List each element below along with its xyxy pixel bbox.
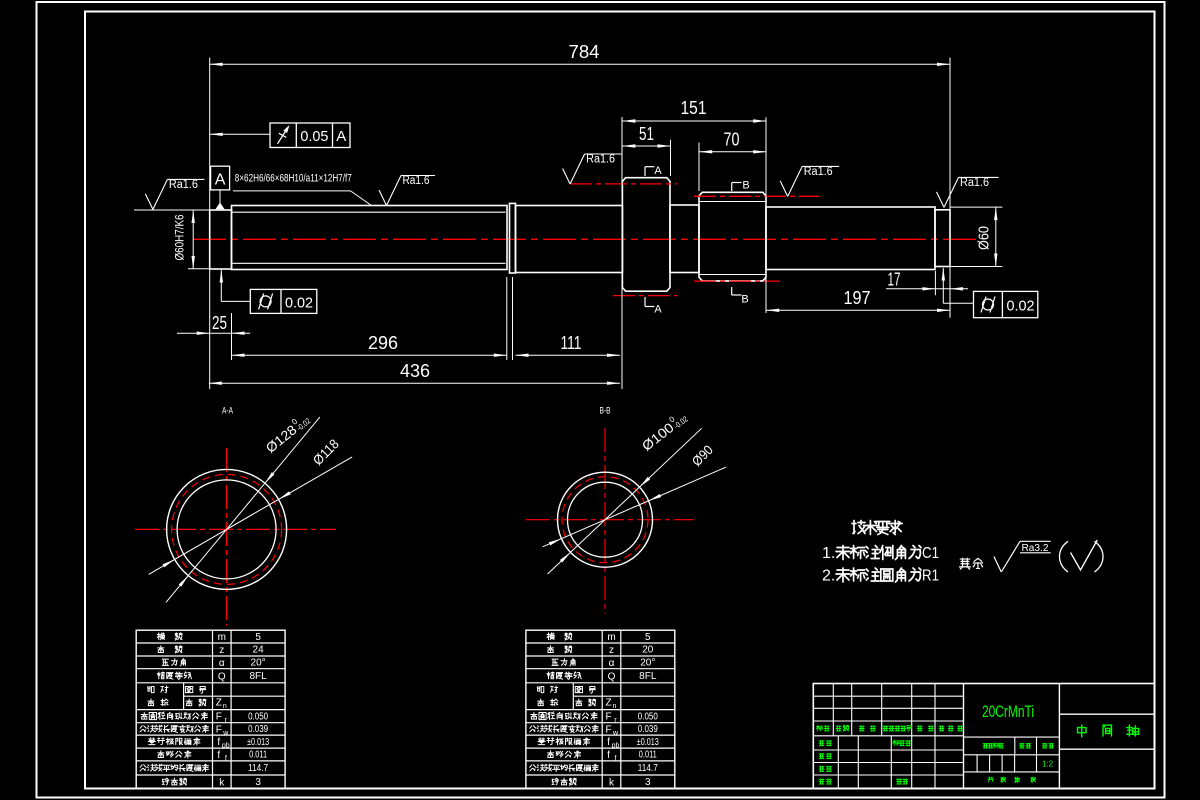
datum A flag box [211, 166, 230, 190]
dim 296 [232, 354, 507, 356]
svg-text:±0.013: ±0.013 [247, 737, 269, 748]
shaft right stub dia60 [935, 210, 950, 267]
dim 111 [516, 354, 621, 356]
section cut mark A top [645, 166, 654, 168]
shaft main centerline (red dash-dot) [193, 238, 976, 240]
svg-text:5: 5 [645, 632, 651, 643]
svg-text:A: A [654, 304, 662, 316]
svg-text:f: f [607, 750, 610, 761]
gear table row labels [157, 633, 164, 640]
shaft left journal dia60 [210, 210, 232, 269]
extension line x515 [512, 277, 514, 360]
A-A outer circle dia128 [167, 469, 287, 589]
svg-text:m: m [218, 632, 226, 643]
runout FCF (0.05 A) box [270, 123, 350, 148]
svg-text:3: 3 [255, 777, 261, 788]
svg-text:f: f [225, 756, 227, 763]
left journal top edge extension [134, 209, 210, 211]
sheet count row (green) [988, 777, 994, 782]
svg-text:±0.013: ±0.013 [637, 737, 659, 748]
leader for right 0.02 [943, 302, 973, 304]
spline minor diameter lines [233, 211, 506, 213]
B-B dia90 dimension line [543, 467, 726, 547]
dim dia60 right (vertical) [995, 207, 997, 266]
extension line y266 right for dia60 [939, 266, 1003, 268]
svg-text:784: 784 [569, 42, 600, 62]
extension line x950 long (784/197/17) [949, 58, 951, 318]
svg-text:51: 51 [639, 124, 654, 144]
title block row4 header texts (green) [817, 725, 823, 731]
A-A inner circle dia118 [177, 480, 276, 579]
svg-text:20CrMnTi: 20CrMnTi [982, 702, 1034, 721]
gear B pitch line top (red) [694, 195, 819, 197]
extension line y207 right for dia60 [950, 206, 1002, 208]
svg-text:114.7: 114.7 [638, 763, 658, 774]
svg-text:B-B: B-B [600, 406, 611, 417]
extension line x766 long [765, 117, 767, 313]
svg-text:Ra1.6: Ra1.6 [403, 175, 430, 187]
svg-text:5: 5 [255, 632, 261, 643]
svg-text:20°: 20° [640, 658, 655, 669]
surface Ra1.6 symbol #2 spline [379, 190, 387, 206]
svg-text:0.05: 0.05 [300, 128, 328, 145]
title block left grid horizontal lines [813, 695, 963, 697]
svg-text:1:2: 1:2 [1042, 760, 1054, 769]
svg-text:F: F [605, 712, 611, 723]
svg-text:20: 20 [642, 645, 654, 656]
extension line x699 for 70 [698, 143, 700, 191]
B-B inner circle dia90 [568, 482, 643, 557]
other-surfaces note (qi yu) [959, 558, 970, 569]
svg-text:B: B [742, 180, 749, 192]
title block middle row cells [964, 736, 1060, 738]
A-A pitch circle (red dashed) [172, 474, 282, 584]
shaft ring shoulder [510, 203, 516, 273]
dim 197 [766, 309, 950, 311]
svg-text:R1: R1 [922, 568, 939, 585]
svg-text:pb: pb [612, 743, 620, 750]
title block outline [813, 684, 1154, 789]
svg-text:0.050: 0.050 [638, 711, 658, 722]
parenthesis check mark [1060, 541, 1069, 572]
svg-text:pb: pb [222, 743, 230, 750]
Ra3.2 surface symbol [994, 557, 1001, 573]
surface Ra1.6 symbol #5 right [937, 192, 945, 208]
cylindricity FCF right (0.02) [974, 291, 1038, 317]
extension line x232 for dims [231, 313, 233, 360]
svg-text:0.039: 0.039 [248, 724, 268, 735]
svg-text:17: 17 [888, 270, 901, 290]
svg-text:m: m [607, 632, 615, 643]
gear table frame [526, 630, 675, 789]
extension line x670 for 51 [670, 140, 672, 176]
svg-text:f: f [615, 756, 617, 763]
gear table column lines [601, 630, 603, 789]
svg-text:F: F [605, 724, 611, 735]
dim 436 [209, 382, 620, 384]
A-A dia118 dimension line [149, 457, 353, 575]
shaft spline section dia68 [232, 206, 508, 270]
svg-text:8×62H6/66×68H10/a11×12H7/f7: 8×62H6/66×68H10/a11×12H7/f7 [235, 173, 352, 185]
technical requirements title [852, 521, 865, 534]
svg-text:Z: Z [605, 698, 611, 709]
svg-text:Ø60: Ø60 [976, 226, 993, 250]
shaft long section dia66 [766, 207, 935, 270]
section cut mark A bottom [645, 306, 654, 308]
svg-text:n: n [613, 703, 617, 710]
dim 17 [886, 288, 968, 290]
svg-text:8FL: 8FL [639, 671, 657, 682]
gear table frame [136, 630, 285, 789]
datum A leader and triangle [219, 190, 221, 204]
gear B pitch line bottom (red) [694, 280, 780, 282]
svg-text:70: 70 [724, 130, 740, 150]
svg-text:8FL: 8FL [249, 671, 267, 682]
svg-text:0.039: 0.039 [638, 724, 658, 735]
dim 70 [699, 151, 766, 153]
gear seat A dia128 [622, 178, 670, 292]
dim 151 [622, 120, 766, 122]
svg-text:114.7: 114.7 [248, 763, 268, 774]
surface Ra1.6 symbol #1 left [145, 194, 153, 210]
svg-text:n: n [223, 703, 227, 710]
small cells row [976, 755, 978, 772]
gear table row labels [547, 633, 554, 640]
title block main vertical dividers [963, 684, 965, 789]
svg-text:Ø60H7/K6: Ø60H7/K6 [173, 214, 187, 260]
gear B chamfer lines [699, 201, 766, 203]
svg-text:1.: 1. [822, 545, 835, 562]
svg-text:α: α [219, 658, 225, 669]
cylindricity FCF left (0.02) [250, 289, 316, 313]
svg-text:f: f [607, 737, 610, 748]
section cut mark B top [732, 182, 742, 184]
surface Ra1.6 symbol #3 gear A [563, 169, 571, 185]
extension line x935 for 17 [934, 271, 936, 295]
svg-text:0.011: 0.011 [249, 750, 267, 761]
svg-text:f: f [217, 750, 220, 761]
gear A pitch line top (red) [570, 183, 677, 185]
svg-text:Q: Q [218, 671, 226, 682]
svg-text:0.011: 0.011 [639, 750, 657, 761]
svg-text:f: f [217, 737, 220, 748]
part name zhong jian zhou (green) [1078, 725, 1086, 737]
svg-text:B: B [741, 294, 748, 306]
svg-text:151: 151 [681, 98, 707, 118]
svg-text:0.02: 0.02 [1007, 298, 1035, 315]
svg-text:20°: 20° [251, 658, 266, 669]
svg-text:w: w [222, 730, 229, 737]
svg-text:Ra1.6: Ra1.6 [804, 166, 833, 178]
svg-text:25: 25 [212, 313, 227, 333]
B-B crosshair centerlines (red) [526, 519, 694, 521]
B-B pitch circle (red dashed) [562, 477, 648, 563]
dim dia60H7/K6 left (vertical) [192, 210, 194, 269]
shaft mid section 2 [670, 205, 699, 273]
dim 784 [210, 63, 950, 65]
title block left grid verticals lower [837, 736, 839, 789]
B-B outer circle dia100 [558, 472, 653, 567]
svg-text:α: α [609, 658, 615, 669]
gear table column lines [212, 630, 214, 789]
svg-text:0.02: 0.02 [285, 295, 313, 312]
svg-text:111: 111 [561, 333, 582, 353]
svg-text:Z: Z [216, 698, 222, 709]
stage mark weight scale labels (green) [983, 743, 988, 748]
svg-text:296: 296 [368, 333, 398, 353]
svg-text:A: A [654, 165, 662, 177]
svg-text:F: F [216, 712, 222, 723]
shaft mid section 1 [516, 206, 623, 273]
title block left grid verticals upper [832, 684, 834, 736]
title block right dividers [1059, 713, 1154, 715]
svg-text:Ra1.6: Ra1.6 [960, 177, 989, 189]
svg-text:0.050: 0.050 [248, 711, 268, 722]
left journal bottom edge extension [188, 268, 210, 270]
svg-text:197: 197 [844, 288, 871, 308]
svg-text:Ra1.6: Ra1.6 [586, 154, 615, 166]
extension line left at x210 [209, 58, 211, 390]
spline spec leader [233, 190, 351, 192]
extension line x507 [506, 277, 508, 360]
svg-text:z: z [219, 645, 224, 656]
svg-text:A-A: A-A [222, 406, 233, 417]
A-A dia128 dimension line with tolerance [166, 417, 320, 602]
svg-text:F: F [216, 724, 222, 735]
svg-text:Ra3.2: Ra3.2 [1022, 542, 1049, 554]
title block left col labels (green) [819, 740, 825, 746]
svg-text:A: A [336, 128, 346, 145]
leader for left 0.02 [221, 300, 250, 302]
gear A pitch line bottom (red) [613, 295, 677, 297]
svg-text:Ra1.6: Ra1.6 [169, 179, 198, 191]
dim 25 [177, 332, 250, 334]
surface Ra1.6 symbol #4 gear B [780, 181, 788, 197]
svg-text:2.: 2. [822, 568, 835, 585]
section cut mark B bottom [732, 294, 742, 296]
extension line x622 long [621, 117, 623, 389]
gear seat B dia100 [699, 192, 766, 281]
svg-text:436: 436 [400, 361, 430, 381]
B-B dia100 dimension line with tolerance [548, 428, 702, 574]
svg-text:w: w [612, 730, 619, 737]
svg-text:C1: C1 [922, 545, 939, 562]
A-A crosshair centerlines (red) [135, 528, 336, 530]
runout symbol arrow [278, 127, 289, 144]
svg-text:A: A [215, 172, 226, 189]
dim 51 [622, 145, 670, 147]
FCF leader to datum line [210, 133, 270, 135]
svg-text:3: 3 [645, 777, 651, 788]
svg-text:Q: Q [608, 671, 616, 682]
svg-text:z: z [609, 645, 614, 656]
svg-text:24: 24 [253, 645, 265, 656]
